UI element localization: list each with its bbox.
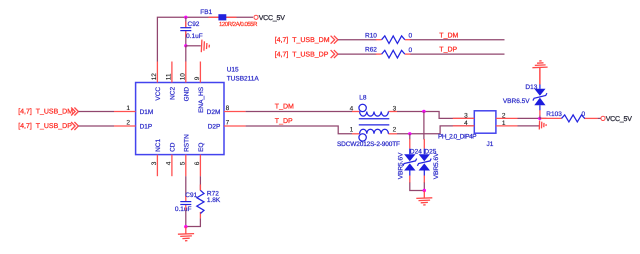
svg-text:ENA_HS: ENA_HS xyxy=(198,86,205,113)
svg-text:U15: U15 xyxy=(227,67,239,74)
wire D25 bottom to ground junction xyxy=(423,183,425,191)
svg-text:R103: R103 xyxy=(546,111,562,118)
svg-text:[4,7] T_USB_DP: [4,7] T_USB_DP xyxy=(275,51,329,59)
svg-text:GND: GND xyxy=(184,87,191,102)
connector J1 PH_2.0_DIP4P xyxy=(438,111,518,148)
node junction at C92 top xyxy=(184,16,187,19)
power port VCC_5V (top) xyxy=(254,15,285,22)
node junction T_DP at D24 xyxy=(408,132,411,135)
ground (right-facing, at J1 pin 1) xyxy=(539,121,546,130)
wire pin 6 to R72 xyxy=(199,176,201,190)
ground (below C91/R72) xyxy=(178,227,194,241)
wire T_USB_DM to R10 xyxy=(338,39,377,41)
svg-text:EQ: EQ xyxy=(198,142,205,151)
wire C92 column lower xyxy=(185,31,187,46)
resistor R10 0 ohm xyxy=(365,32,413,43)
pin 2 D1P xyxy=(114,125,136,127)
svg-text:C91: C91 xyxy=(185,192,197,199)
svg-text:3: 3 xyxy=(151,161,158,165)
capacitor C91 xyxy=(175,192,198,213)
svg-text:[4,7] T_USB_DP: [4,7] T_USB_DP xyxy=(18,122,72,130)
node junction T_DM at D25 xyxy=(422,110,425,113)
wire pin 5 to C91 xyxy=(185,176,187,197)
svg-text:T_DM: T_DM xyxy=(439,32,458,39)
wire D24 bottom to ground junction xyxy=(410,183,425,191)
svg-text:L8: L8 xyxy=(359,95,367,102)
svg-text:1: 1 xyxy=(126,105,130,112)
TVS diode D25 VBR5.6V xyxy=(417,139,440,183)
svg-text:VBR5.6V: VBR5.6V xyxy=(433,152,440,179)
wire R10 to right edge, net T_DM xyxy=(411,32,505,39)
svg-text:C92: C92 xyxy=(188,21,200,28)
pin 9 ENA_HS xyxy=(199,62,201,83)
wire T_USB_DP to R62 xyxy=(338,53,377,55)
svg-text:3: 3 xyxy=(393,105,397,112)
svg-text:1.8K: 1.8K xyxy=(207,197,221,204)
svg-text:0: 0 xyxy=(409,33,413,40)
svg-text:0.1uF: 0.1uF xyxy=(175,206,192,213)
svg-text:120R/2A/0.055R: 120R/2A/0.055R xyxy=(219,21,258,28)
TVS diode D13 VBR6.5V xyxy=(503,68,547,119)
pin 7 D2P xyxy=(224,125,246,127)
svg-text:0: 0 xyxy=(409,47,413,54)
svg-text:D13: D13 xyxy=(525,84,537,91)
svg-text:6: 6 xyxy=(194,161,201,165)
svg-text:1: 1 xyxy=(350,126,354,133)
wire C92 column upper xyxy=(185,17,187,27)
resistor R72 1.8K xyxy=(197,185,221,219)
wire junction to D24 xyxy=(409,134,411,140)
svg-text:R62: R62 xyxy=(365,47,377,54)
pin 1 D1M xyxy=(114,111,136,113)
svg-text:5: 5 xyxy=(179,161,186,165)
wire L8 pin 2 to J1 pin 4 xyxy=(397,126,474,134)
svg-text:D2M: D2M xyxy=(207,109,221,116)
wire T_USB_DM to pin 1 xyxy=(79,111,115,113)
svg-text:4: 4 xyxy=(165,161,172,165)
wire junction to D25 xyxy=(423,112,425,140)
svg-text:RSTN: RSTN xyxy=(184,134,191,152)
wire C91 bottom to junction xyxy=(185,210,187,227)
wire C92 junction down to pin 10 xyxy=(185,46,187,62)
wire R62 to right edge, net T_DP xyxy=(411,47,505,54)
node junction at TVS ground xyxy=(423,189,426,192)
pin 12 VCC xyxy=(156,62,158,83)
wire R103 to power port xyxy=(598,117,601,119)
ground (flipped, above D13) xyxy=(532,61,547,85)
svg-text:12: 12 xyxy=(151,73,158,81)
svg-text:NC2: NC2 xyxy=(170,87,177,100)
svg-text:CD: CD xyxy=(170,142,177,152)
ferrite bead FB1 xyxy=(200,9,258,28)
resistor R103 0 ohm xyxy=(541,111,598,122)
svg-text:T_DP: T_DP xyxy=(439,47,457,54)
port [4,7] T_USB_DM (left) xyxy=(18,108,78,116)
ground (right-facing, near C92) xyxy=(201,40,209,53)
pin 3 NC1 xyxy=(156,155,158,177)
svg-text:VBR6.5V: VBR6.5V xyxy=(503,98,530,105)
svg-text:J1: J1 xyxy=(487,141,494,148)
svg-text:0.1uF: 0.1uF xyxy=(186,33,203,40)
svg-text:4: 4 xyxy=(350,105,354,112)
wire R72 bottom to junction xyxy=(186,218,201,226)
wire J1 pin 1 to ground xyxy=(518,125,540,127)
resistor R62 0 ohm xyxy=(365,47,413,58)
pin 8 D2M xyxy=(224,111,246,113)
svg-text:D1M: D1M xyxy=(140,109,154,116)
svg-text:TUSB211A: TUSB211A xyxy=(227,75,260,82)
svg-text:11: 11 xyxy=(165,73,172,80)
svg-text:SDCW2012S-2-900TF: SDCW2012S-2-900TF xyxy=(337,141,400,148)
pin 5 RSTN xyxy=(185,155,187,177)
port [4,7] T_USB_DP (second row) xyxy=(275,50,338,58)
svg-text:0: 0 xyxy=(582,111,586,118)
svg-text:VCC_5V: VCC_5V xyxy=(606,116,633,123)
ground (below D24/D25) xyxy=(416,191,432,206)
node junction at D13/R103 xyxy=(538,117,541,120)
svg-text:T_DP: T_DP xyxy=(275,118,293,125)
svg-text:[4,7] T_USB_DM: [4,7] T_USB_DM xyxy=(18,108,73,116)
svg-text:D2P: D2P xyxy=(208,123,221,130)
power port VCC_5V (right) xyxy=(601,116,632,123)
svg-text:[4,7] T_USB_DM: [4,7] T_USB_DM xyxy=(275,36,330,44)
wire J1 pin 2 to junction xyxy=(518,117,540,119)
IC U15 TUSB211A xyxy=(114,62,259,177)
wire pin 8 to L8 pin 4, net T_DM xyxy=(246,103,352,111)
svg-text:FB1: FB1 xyxy=(200,9,212,16)
svg-text:VCC: VCC xyxy=(155,87,162,101)
svg-text:D1P: D1P xyxy=(140,123,153,130)
port [4,7] T_USB_DP (left) xyxy=(18,122,78,130)
TVS diode D24 VBR5.6V xyxy=(397,139,422,183)
wire from C92 bottom junction to ground xyxy=(186,45,201,47)
svg-text:10: 10 xyxy=(179,73,186,81)
wire junction to R103 xyxy=(540,117,547,119)
pin 6 EQ xyxy=(199,155,201,177)
svg-text:2: 2 xyxy=(126,120,130,127)
svg-text:VBR5.6V: VBR5.6V xyxy=(397,152,404,179)
svg-text:PH_2.0_DIP4P: PH_2.0_DIP4P xyxy=(438,133,476,140)
svg-text:VCC_5V: VCC_5V xyxy=(259,15,286,22)
pin 10 GND xyxy=(185,62,187,83)
wire VCC top bus from pin12 corner to VCC_5V port xyxy=(157,17,253,61)
svg-text:8: 8 xyxy=(226,105,230,112)
node junction at C92 bottom xyxy=(184,44,187,47)
pin 4 CD xyxy=(171,155,173,177)
common mode choke L8 SDCW2012S-2-900TF xyxy=(337,95,400,149)
pin 11 NC2 xyxy=(171,62,173,83)
svg-text:T_DM: T_DM xyxy=(275,103,294,110)
svg-text:NC1: NC1 xyxy=(155,139,162,152)
svg-text:7: 7 xyxy=(226,120,230,127)
wire L8 pin 3 to J1 pin 3 xyxy=(397,112,474,119)
svg-text:2: 2 xyxy=(393,126,397,133)
port [4,7] T_USB_DM (top row) xyxy=(275,36,338,44)
wire T_USB_DP to pin 2 xyxy=(79,125,115,127)
capacitor C92 xyxy=(180,21,202,40)
node junction at C91/R72 ground xyxy=(184,225,187,228)
wire pin 7 to L8 pin 1, net T_DP xyxy=(246,118,352,134)
svg-text:9: 9 xyxy=(194,76,201,80)
svg-text:R10: R10 xyxy=(365,32,377,39)
